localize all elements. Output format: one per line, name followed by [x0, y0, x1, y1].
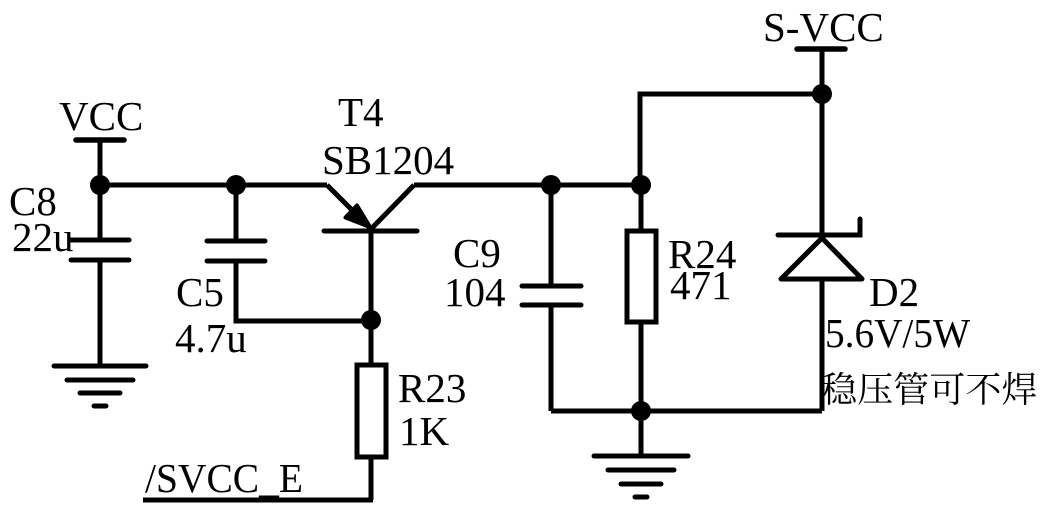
svg-text:C5: C5 — [176, 269, 224, 315]
junction node C5 — [226, 175, 246, 195]
resistor R23 bottom lead — [369, 457, 374, 500]
junction node ground rail — [631, 401, 651, 421]
transistor T4 base bar — [324, 229, 417, 234]
wire top rail left (VCC node to T4 emitter) — [100, 183, 327, 188]
svg-text:104: 104 — [444, 269, 506, 315]
svg-text:/SVCC_E: /SVCC_E — [145, 455, 303, 501]
junction node T4 base / R23 — [361, 310, 381, 330]
capacitor C8 bottom lead — [98, 260, 103, 366]
svg-text:T4: T4 — [338, 89, 384, 135]
resistor R24 body — [627, 231, 656, 322]
capacitor C8 plates — [71, 238, 129, 243]
transistor T4 collector diagonal — [371, 185, 414, 229]
ground (below R24 node) — [594, 456, 688, 497]
svg-text:R23: R23 — [398, 365, 466, 411]
svg-text:SB1204: SB1204 — [322, 137, 454, 183]
label 稳压管可不焊 (zener can be left unsoldered) — [822, 372, 1036, 405]
resistor R24 bottom lead — [639, 322, 644, 411]
svg-text:S-VCC: S-VCC — [763, 4, 884, 50]
wire S-VCC stem — [820, 49, 825, 94]
wire VCC stem — [98, 140, 103, 186]
svg-text:D2: D2 — [869, 269, 919, 315]
diode D2 top lead — [820, 94, 825, 235]
svg-text:VCC: VCC — [59, 93, 143, 139]
svg-text:5.6V/5W: 5.6V/5W — [825, 310, 970, 356]
svg-text:22u: 22u — [12, 214, 74, 260]
wire /SVCC_E net — [143, 498, 373, 503]
svg-text:1K: 1K — [399, 408, 450, 454]
svg-text:4.7u: 4.7u — [175, 315, 247, 361]
capacitor C9 bottom lead — [549, 305, 554, 411]
transistor T4 base lead down — [369, 231, 374, 321]
wire top rail right (T4 collector to R24 node) — [414, 183, 641, 188]
diode D2 bottom lead — [820, 279, 825, 411]
junction node S-VCC — [812, 84, 832, 104]
svg-text:471: 471 — [670, 262, 732, 308]
junction node R24 top — [631, 175, 651, 195]
resistor R23 top lead — [369, 320, 374, 365]
transistor T4 emitter arrowhead — [346, 206, 371, 228]
capacitor C5 bottom lead — [236, 261, 371, 321]
capacitor C9 plates — [522, 284, 581, 289]
diode D2 cathode bar with tick — [778, 219, 860, 235]
diode D2 triangle — [781, 238, 862, 279]
wire S-VCC node to top rail — [640, 94, 822, 185]
wire bottom rail (C9 to D2) — [551, 409, 822, 414]
capacitor C5 top lead — [234, 185, 239, 241]
capacitor C9 top lead — [549, 185, 554, 286]
power symbol VCC bar — [76, 137, 124, 143]
power symbol S-VCC bar — [797, 46, 845, 52]
capacitor C8 top lead — [98, 185, 103, 240]
ground (below C8) — [54, 366, 146, 406]
junction node C9 — [541, 175, 561, 195]
junction node VCC/C8 — [90, 175, 110, 195]
resistor R23 body — [357, 365, 386, 457]
capacitor C5 plates — [207, 239, 265, 244]
wire ground stem below node — [639, 411, 644, 456]
transistor T4 emitter diagonal — [327, 185, 371, 229]
resistor R24 top lead — [639, 185, 644, 231]
